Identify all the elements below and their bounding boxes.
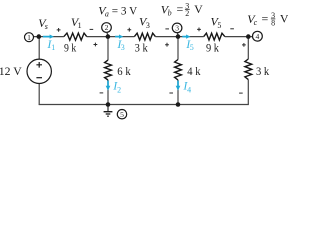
svg-text:V: V bbox=[194, 2, 203, 16]
svg-text:9 k: 9 k bbox=[64, 40, 76, 54]
svg-text:3: 3 bbox=[121, 43, 125, 52]
svg-text:3 k: 3 k bbox=[135, 40, 148, 54]
svg-text:6 k: 6 k bbox=[117, 64, 130, 78]
svg-text:a: a bbox=[105, 9, 109, 18]
svg-text:=: = bbox=[177, 2, 184, 16]
svg-text:4: 4 bbox=[256, 32, 260, 41]
svg-text:12 V: 12 V bbox=[0, 64, 22, 78]
svg-text:5: 5 bbox=[217, 21, 221, 30]
svg-text:2: 2 bbox=[185, 9, 189, 18]
svg-text:c: c bbox=[254, 18, 258, 27]
svg-text:s: s bbox=[45, 22, 48, 31]
svg-text:5: 5 bbox=[120, 110, 124, 119]
svg-text:4 k: 4 k bbox=[187, 64, 200, 78]
svg-text:= 3 V: = 3 V bbox=[112, 3, 138, 17]
svg-text:1: 1 bbox=[27, 33, 31, 42]
svg-text:3 k: 3 k bbox=[256, 64, 269, 78]
svg-text:3: 3 bbox=[175, 24, 179, 33]
svg-text:V: V bbox=[280, 12, 288, 26]
svg-text:=: = bbox=[262, 12, 269, 26]
svg-text:1: 1 bbox=[51, 43, 55, 52]
svg-text:5: 5 bbox=[190, 43, 194, 52]
svg-text:b: b bbox=[168, 9, 172, 18]
svg-text:1: 1 bbox=[78, 21, 82, 30]
svg-text:3: 3 bbox=[146, 21, 150, 30]
svg-text:2: 2 bbox=[105, 23, 109, 32]
svg-text:9 k: 9 k bbox=[206, 41, 219, 55]
svg-text:8: 8 bbox=[271, 18, 275, 27]
svg-text:4: 4 bbox=[187, 85, 191, 94]
svg-text:2: 2 bbox=[117, 85, 121, 94]
